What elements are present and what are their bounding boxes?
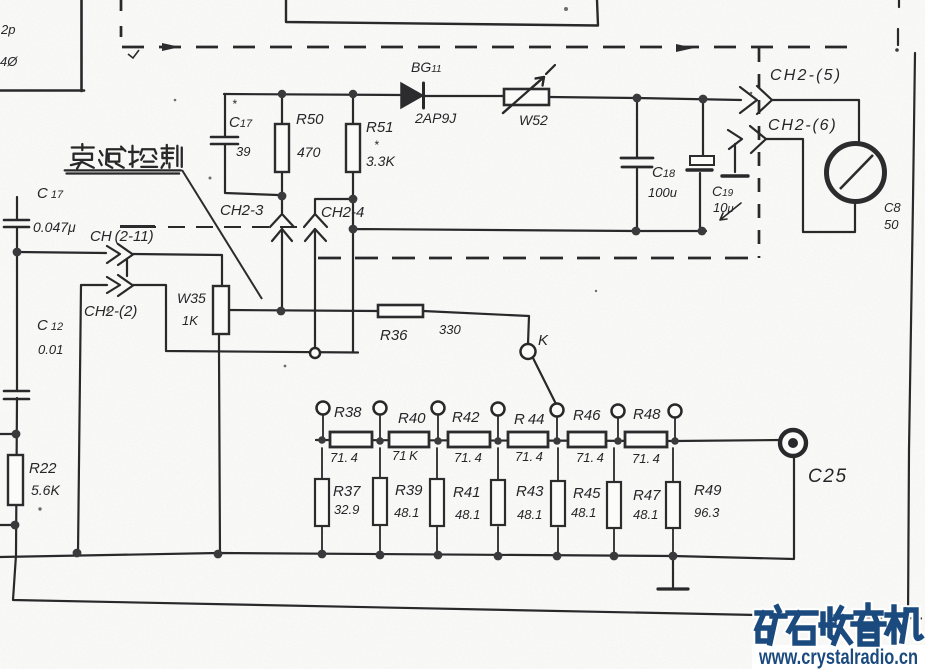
svg-text:R38: R38 xyxy=(334,404,362,421)
svg-text:48.1: 48.1 xyxy=(517,507,542,522)
svg-text:3.3K: 3.3K xyxy=(366,153,395,169)
svg-text:330: 330 xyxy=(439,322,461,337)
svg-text:1K: 1K xyxy=(182,313,199,328)
svg-text:R36: R36 xyxy=(380,327,408,344)
svg-text:R46: R46 xyxy=(573,407,601,424)
svg-text:10μ: 10μ xyxy=(713,200,734,215)
svg-text:CH (2-11): CH (2-11) xyxy=(90,228,154,245)
svg-text:R 44: R 44 xyxy=(514,411,545,428)
svg-text:32.9: 32.9 xyxy=(334,502,359,517)
svg-text:R50: R50 xyxy=(296,111,324,128)
svg-text:71. 4: 71. 4 xyxy=(330,450,358,465)
svg-text:K: K xyxy=(538,332,549,349)
svg-text:71. 4: 71. 4 xyxy=(632,451,660,466)
svg-text:71. 4: 71. 4 xyxy=(576,450,604,465)
svg-text:48.1: 48.1 xyxy=(455,507,480,522)
svg-text:R49: R49 xyxy=(694,482,722,499)
svg-text:W52: W52 xyxy=(519,112,548,128)
svg-text:C 2 5: C 2 5 xyxy=(808,466,846,487)
svg-text:R45: R45 xyxy=(573,485,601,502)
svg-text:R42: R42 xyxy=(452,409,480,426)
svg-text:CH2-3: CH2-3 xyxy=(220,202,264,219)
svg-text:R39: R39 xyxy=(395,482,423,499)
svg-text:71. 4: 71. 4 xyxy=(454,450,482,465)
svg-text:R41: R41 xyxy=(453,484,481,501)
svg-text:R48: R48 xyxy=(633,406,661,423)
svg-text:48.1: 48.1 xyxy=(571,505,596,520)
svg-text:100u: 100u xyxy=(648,185,677,200)
svg-text:0.047μ: 0.047μ xyxy=(33,219,76,235)
svg-text:71 K: 71 K xyxy=(392,448,419,463)
svg-text:48.1: 48.1 xyxy=(394,505,419,520)
svg-text:CH2-(6): CH2-(6) xyxy=(768,117,838,134)
svg-text:39: 39 xyxy=(236,144,250,159)
svg-text:www.crystalradio.cn: www.crystalradio.cn xyxy=(758,646,918,669)
svg-text:0.01: 0.01 xyxy=(38,342,63,357)
svg-text:R37: R37 xyxy=(333,483,361,500)
svg-text:CH2-(2): CH2-(2) xyxy=(84,303,137,320)
svg-text:71. 4: 71. 4 xyxy=(515,449,543,464)
svg-text:50: 50 xyxy=(884,217,899,232)
svg-text:470: 470 xyxy=(297,144,321,160)
svg-text:2p: 2p xyxy=(0,22,15,37)
svg-text:5.6K: 5.6K xyxy=(31,482,60,498)
svg-text:96.3: 96.3 xyxy=(694,505,720,520)
svg-text:CH2-4: CH2-4 xyxy=(321,204,364,221)
svg-text:R22: R22 xyxy=(29,460,57,477)
svg-text:2AP9J: 2AP9J xyxy=(414,110,457,126)
svg-text:R43: R43 xyxy=(516,483,544,500)
svg-text:R51: R51 xyxy=(366,119,394,136)
svg-text:48.1: 48.1 xyxy=(633,507,658,522)
svg-text:*: * xyxy=(374,138,379,152)
svg-text:C8: C8 xyxy=(884,200,901,215)
svg-text:CH2-(5): CH2-(5) xyxy=(770,67,842,84)
svg-text:4Ø: 4Ø xyxy=(0,54,18,69)
svg-text:R40: R40 xyxy=(398,410,426,427)
svg-text:W35: W35 xyxy=(177,290,206,306)
svg-text:R47: R47 xyxy=(633,487,661,504)
svg-text:*: * xyxy=(232,97,237,111)
